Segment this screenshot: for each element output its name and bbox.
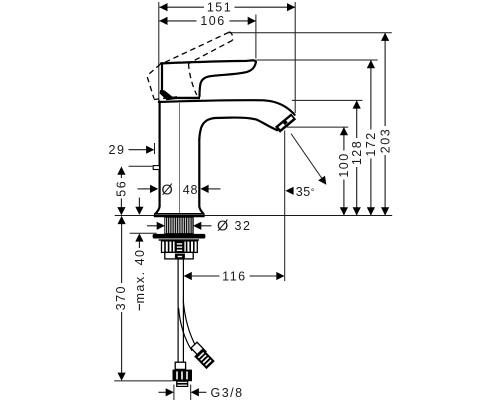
svg-text:370: 370 [114,285,128,310]
svg-text:48: 48 [183,183,199,197]
dimension 29 [109,143,155,157]
deck line [115,215,393,217]
aerator band [278,116,294,129]
svg-text:Ø: Ø [217,219,228,235]
body side tab [153,166,159,170]
extension line lever tip x=255.9 [255,15,257,59]
svg-text:35°: 35° [296,185,315,199]
dimension 106 [159,14,256,28]
reference line 128 top y=100.4 [292,99,363,101]
dashed lever raised tip [229,32,233,40]
svg-text:max. 40: max. 40 [133,249,147,304]
svg-text:29: 29 [109,143,126,157]
extension line 370 bottom [114,380,172,382]
spout bottom edge [199,118,277,139]
dimension 56 [115,167,129,216]
svg-text:151: 151 [207,0,232,14]
G3/8 connector block [173,370,193,382]
supply hose vertical [178,260,183,363]
dimension 116 [184,269,285,283]
dimension 128 vertical [350,100,364,215]
extension line spout tip x=295.2 [294,2,296,113]
reference line 100 top y=127.1 [287,126,348,128]
reference line 172 top y=60 [257,59,378,61]
threaded shank [165,217,193,233]
dimension 370 [114,216,128,381]
svg-text:203: 203 [378,128,392,153]
faucet body left edge [156,102,160,214]
svg-text:32: 32 [235,219,252,233]
reference line 203 top y=32.7 [229,32,392,34]
faucet body right edge [199,139,203,214]
svg-text:116: 116 [222,269,246,283]
diagonal hose collar [191,342,206,357]
svg-text:172: 172 [364,131,378,156]
dimension 100 vertical [337,127,351,215]
extension line 56 top y=166.3 [129,165,153,167]
dimension G3/8 [159,385,244,400]
dashed lever back-left bottom [154,97,177,100]
lever right and underside [200,62,256,96]
dashed lever back-left top [148,64,161,75]
vertical hose collar [175,362,185,369]
dimension 203 vertical [378,33,392,216]
aerator drop line x=284.7 [284,131,286,282]
G3/8 connector stub [177,381,188,386]
dashed lever back-left side [147,77,154,99]
extension line max40 bottom y=233.2 [130,232,157,234]
lever bottom wedge [160,90,200,100]
svg-text:56: 56 [115,180,129,197]
faucet base plinth [155,214,204,216]
dimension diameter 48 [138,183,221,199]
lever top edge [161,60,256,63]
diagonal hose connector [194,348,215,369]
dashed lever raised bottom [189,40,233,63]
extension line back edge x=158.8 [158,2,160,101]
dimension max 40 [133,198,147,311]
svg-text:G3/8: G3/8 [211,386,244,400]
mounting nut upper [162,241,198,253]
svg-text:106: 106 [200,14,225,28]
washer black band [153,234,206,239]
svg-text:Ø: Ø [162,183,173,199]
supply hose diagonal [179,300,197,351]
dimension 151 [159,0,295,14]
washer lower line [159,239,199,240]
svg-text:128: 128 [350,140,364,165]
dimension 172 vertical [364,60,378,216]
dashed lever raised neck [189,64,197,96]
spout top edge [159,100,295,115]
base deck thick line [154,215,205,217]
mounting nut lower [165,252,193,259]
dimension diameter 32 [147,219,251,235]
lever left edge [161,63,163,91]
angle 35 deg annotation [285,134,326,200]
faucet body centerline [179,103,181,213]
dashed lever raised top [165,33,229,63]
